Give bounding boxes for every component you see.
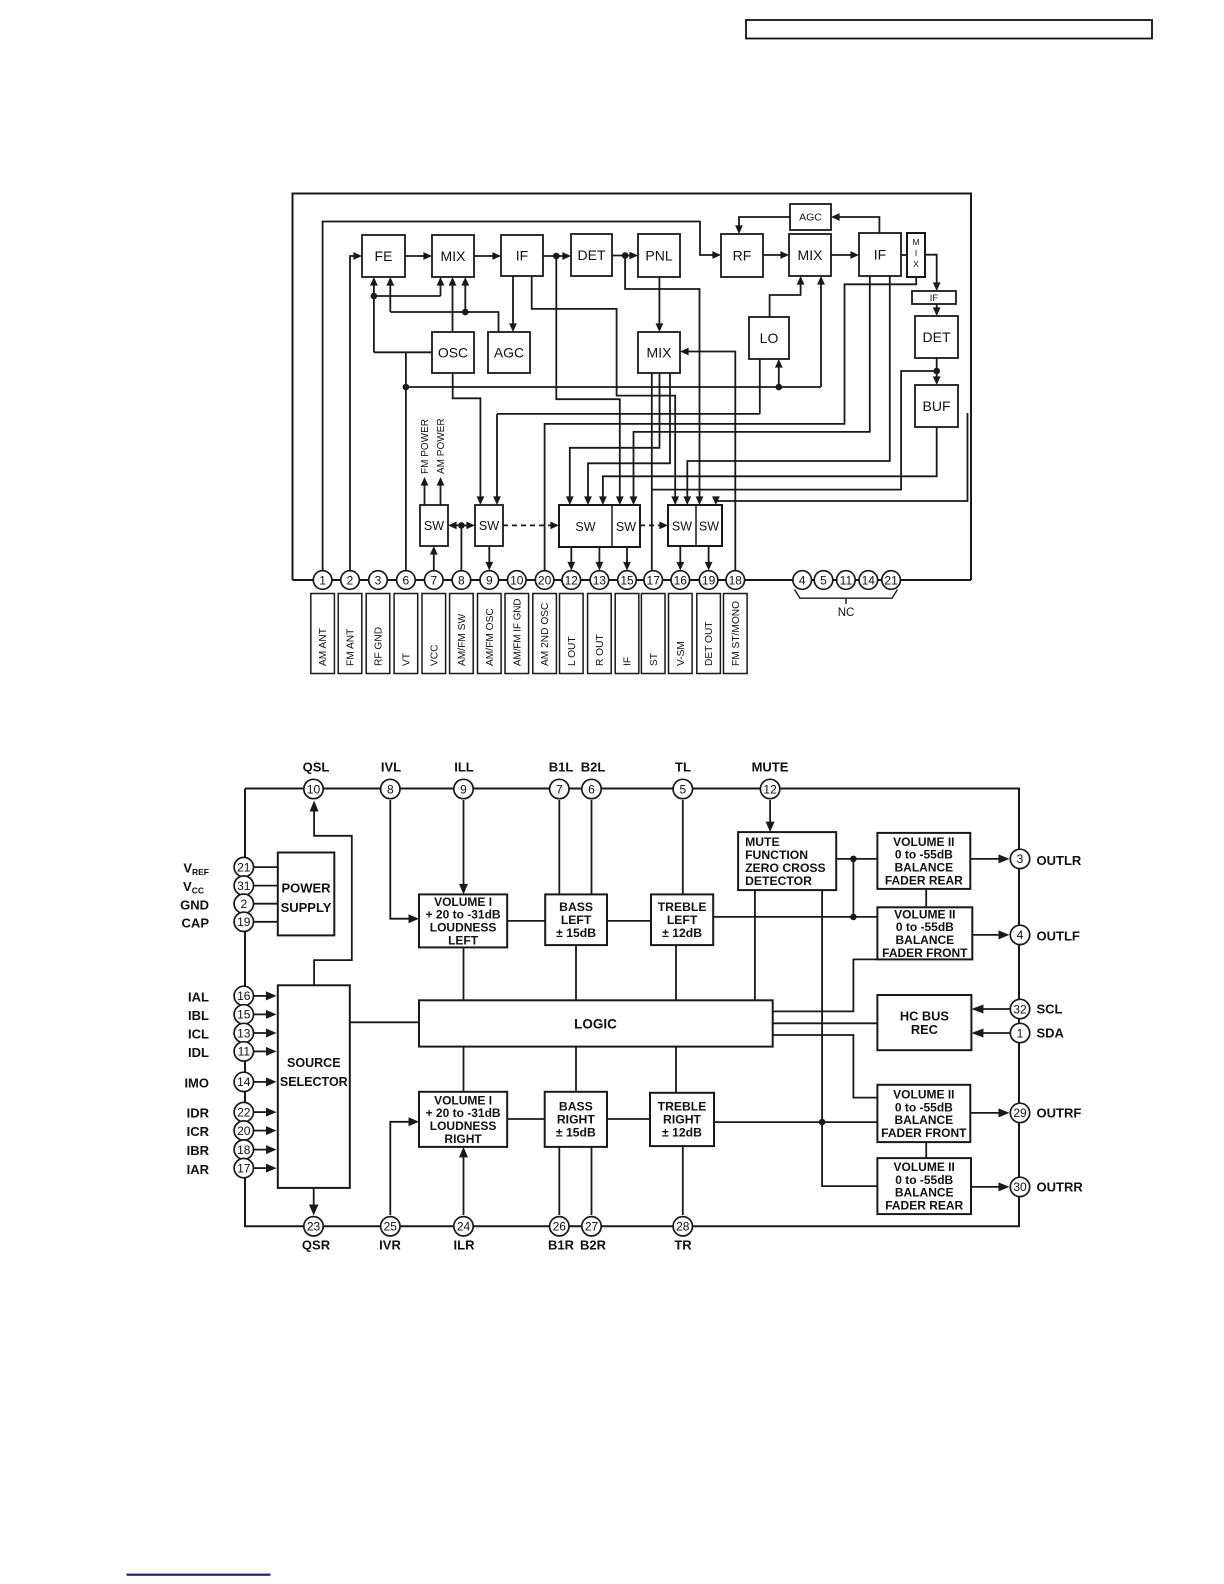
- pin name box DET OUT: [697, 594, 721, 674]
- wire IAR input arrow to SOURCE SELECTOR: [253, 1164, 277, 1173]
- wire pin24 ILR to VOLUME I RIGHT bottom: [459, 1147, 468, 1215]
- wire TREBLE RIGHT to VOLUME II FRONT (R) with junction: [714, 1121, 877, 1123]
- IC1 pin 18: [726, 571, 745, 590]
- svg-text:AM/FM IF GND: AM/FM IF GND: [512, 599, 523, 666]
- wire pin6 B2L to BASS LEFT: [591, 800, 593, 894]
- wire SOURCE SELECTOR to pin10 QSL: [310, 801, 352, 986]
- wire DET (AM) junction tap to pin17 net: [652, 371, 937, 490]
- block HC BUS REC: [877, 995, 971, 1050]
- pin name box L OUT: [560, 594, 584, 674]
- svg-text:M: M: [912, 237, 919, 247]
- svg-text:BUF: BUF: [923, 398, 951, 414]
- block AGC (AM, top): [790, 204, 831, 230]
- IC2 pin 31: [234, 876, 253, 895]
- svg-text:1: 1: [319, 573, 326, 587]
- svg-text:15: 15: [620, 573, 634, 587]
- wire BASS LEFT to LOGIC: [575, 945, 577, 1000]
- svg-text:LO: LO: [760, 330, 779, 346]
- svg-text:VREF: VREF: [183, 861, 209, 878]
- svg-text:DET: DET: [923, 329, 951, 345]
- pin name box AM 2ND OSC: [533, 594, 557, 674]
- wire pin12 MUTE to MUTE FUNCTION box: [766, 800, 775, 832]
- svg-text:IDR: IDR: [187, 1106, 210, 1121]
- block MIX (narrow, AM 2nd): [907, 233, 925, 277]
- IC2 pin 25: [381, 1217, 400, 1236]
- svg-text:7: 7: [556, 782, 563, 796]
- svg-text:25: 25: [384, 1220, 398, 1234]
- wire small IF to DET (AM): [933, 304, 941, 316]
- block SW1: [420, 505, 448, 546]
- IC1 pin 7: [425, 571, 444, 590]
- svg-text:BASS: BASS: [559, 1100, 593, 1114]
- svg-text:SOURCE: SOURCE: [287, 1056, 340, 1070]
- wire SW2 to pin9: [485, 546, 493, 571]
- pin name box AM/FM OSC: [478, 594, 502, 674]
- wire ICR input arrow to SOURCE SELECTOR: [253, 1126, 277, 1135]
- svg-text:OUTLF: OUTLF: [1037, 928, 1080, 943]
- svg-text:GND: GND: [180, 898, 209, 913]
- svg-text:REC: REC: [911, 1022, 938, 1037]
- svg-text:LOGIC: LOGIC: [574, 1017, 617, 1032]
- svg-text:± 12dB: ± 12dB: [662, 1126, 702, 1140]
- svg-text:IVL: IVL: [381, 760, 401, 775]
- block AGC (FM): [488, 332, 530, 373]
- block RF (AM): [721, 234, 763, 277]
- IC2 pin 24: [454, 1217, 473, 1236]
- wire pin28 TR to TREBLE RIGHT: [682, 1146, 684, 1215]
- wire SW3 to pin13: [596, 547, 604, 571]
- wire SW1 FM POWER output: [421, 477, 429, 505]
- svg-text:FM POWER: FM POWER: [420, 419, 431, 474]
- block VOLUME II BALANCE FADER REAR (L): [877, 833, 970, 889]
- IC2 pin 12: [760, 779, 779, 798]
- wire VOLUME II REAR (L) to VOLUME II FRONT (L): [925, 889, 927, 907]
- svg-text:ZERO CROSS: ZERO CROSS: [745, 861, 826, 875]
- IC2 pin 11: [234, 1042, 253, 1061]
- svg-text:FADER REAR: FADER REAR: [885, 873, 963, 887]
- block POWER SUPPLY: [278, 853, 335, 936]
- svg-text:6: 6: [403, 573, 410, 587]
- block VOLUME I RIGHT: [419, 1092, 507, 1147]
- svg-text:3: 3: [1017, 852, 1024, 866]
- svg-text:SW: SW: [699, 520, 719, 534]
- IC2 pin 30: [1010, 1177, 1029, 1196]
- wire AGC (top) to RF: [735, 217, 790, 234]
- svg-text:± 15dB: ± 15dB: [556, 926, 596, 940]
- svg-text:IBL: IBL: [188, 1008, 209, 1023]
- wire SOURCE SELECTOR to pin23 QSR: [309, 1188, 319, 1216]
- NC brace: [795, 590, 898, 605]
- svg-text:30: 30: [1013, 1180, 1027, 1194]
- wire pin2 FM ANT to FE: [350, 252, 362, 571]
- svg-text:12: 12: [565, 573, 579, 587]
- svg-text:OUTRR: OUTRR: [1037, 1180, 1084, 1195]
- svg-text:CAP: CAP: [182, 916, 210, 931]
- block FE: [362, 235, 405, 277]
- wire VOLUME I LEFT to BASS LEFT: [507, 920, 545, 922]
- IC2 pin 14: [234, 1072, 253, 1091]
- wire VT long horizontal to LO and MIX (AM): [406, 276, 825, 390]
- svg-text:2: 2: [347, 573, 354, 587]
- svg-text:8: 8: [387, 782, 394, 796]
- IC2 pin 17: [234, 1158, 253, 1177]
- IC1 package outline: [293, 194, 972, 581]
- svg-text:FADER FRONT: FADER FRONT: [882, 946, 968, 960]
- IC1 pin 19: [699, 571, 718, 590]
- svg-text:IF: IF: [516, 247, 528, 263]
- svg-text:VCC: VCC: [429, 644, 440, 666]
- wire BASS RIGHT to TREBLE RIGHT: [607, 1118, 650, 1120]
- wire VOLUME I RIGHT to BASS RIGHT: [507, 1118, 545, 1120]
- block VOLUME II BALANCE FADER REAR (R): [877, 1158, 971, 1214]
- svg-text:IF: IF: [874, 246, 886, 262]
- svg-text:AM ANT: AM ANT: [318, 628, 329, 666]
- IC1 pin 13: [590, 571, 609, 590]
- pin name box FM ANT: [338, 594, 362, 674]
- wire SOURCE SELECTOR to LOGIC: [350, 1021, 419, 1023]
- svg-text:SCL: SCL: [1037, 1002, 1063, 1017]
- wire MUTE box to LOGIC: [754, 890, 756, 1000]
- wire IF (AM) right output to SW5 input b: [683, 276, 889, 505]
- pin name box RF GND: [366, 594, 390, 674]
- IC2 pin 18: [234, 1140, 253, 1159]
- wire pin1 AM ANT to RF: [323, 222, 721, 571]
- IC2 pin 22: [234, 1102, 253, 1121]
- svg-text:RIGHT: RIGHT: [663, 1113, 701, 1127]
- wire RF to MIX (AM): [763, 251, 789, 259]
- wire TREBLE LEFT to VOLUME II FRONT (L) with junction: [713, 914, 877, 921]
- wire pin27 B2R to BASS RIGHT: [591, 1147, 593, 1215]
- wire MUTE box to VOLUME II REAR (L) with junction: [836, 856, 877, 917]
- wire MIX (AM 2nd conv) to pin17 ST: [651, 373, 653, 571]
- block LOGIC: [419, 1000, 773, 1046]
- IC2 pin 23: [304, 1217, 323, 1236]
- wire MIX to IF: [474, 252, 501, 260]
- IC2 pin 10: [304, 779, 323, 798]
- svg-text:SW: SW: [479, 519, 499, 533]
- svg-text:OUTLR: OUTLR: [1037, 853, 1082, 868]
- wire VOLUME II REAR (L) to pin3 OUTLR: [970, 854, 1009, 863]
- wire IMO input arrow to SOURCE SELECTOR: [253, 1077, 277, 1086]
- svg-text:15: 15: [237, 1008, 251, 1022]
- svg-text:17: 17: [647, 573, 661, 587]
- IC2 pin 20: [234, 1121, 253, 1140]
- IC1 pin 12: [562, 571, 581, 590]
- svg-text:DET: DET: [578, 247, 606, 263]
- svg-text:27: 27: [585, 1220, 599, 1234]
- wire OSC to MIX (FM 1st): [449, 277, 457, 332]
- wire VOLUME I LEFT to LOGIC: [463, 947, 465, 1000]
- wire pin8 IVL to VOLUME I LEFT: [390, 800, 419, 923]
- svg-text:24: 24: [457, 1220, 471, 1234]
- wire IAL input arrow to SOURCE SELECTOR: [253, 991, 277, 1000]
- wire pin20 AM 2ND OSC to narrow MIX: [545, 277, 917, 571]
- svg-text:NC: NC: [838, 607, 855, 619]
- svg-text:SUPPLY: SUPPLY: [281, 900, 332, 915]
- svg-text:OSC: OSC: [438, 344, 468, 360]
- svg-text:31: 31: [237, 879, 251, 893]
- svg-text:3: 3: [375, 573, 382, 587]
- svg-text:5: 5: [820, 573, 827, 587]
- svg-text:ICR: ICR: [187, 1124, 210, 1139]
- wire VOLUME II FRONT (R) to VOLUME II REAR (R): [925, 1142, 927, 1158]
- svg-text:SDA: SDA: [1037, 1026, 1065, 1041]
- block MIX (AM 2nd conv): [638, 332, 680, 373]
- svg-text:ILL: ILL: [454, 760, 474, 775]
- svg-text:26: 26: [553, 1220, 567, 1234]
- svg-text:16: 16: [237, 989, 251, 1003]
- IC1 pin 16: [671, 571, 690, 590]
- svg-text:QSR: QSR: [302, 1238, 331, 1253]
- svg-text:DETECTOR: DETECTOR: [745, 874, 812, 888]
- block SW2: [475, 505, 503, 546]
- IC2 pin 32: [1010, 999, 1029, 1018]
- wire SW3 to pin12: [567, 547, 575, 571]
- svg-text:22: 22: [237, 1105, 251, 1119]
- IC1 pin 8: [452, 571, 471, 590]
- svg-text:SW: SW: [575, 520, 595, 534]
- svg-text:FM ANT: FM ANT: [346, 629, 357, 666]
- block DET (AM): [915, 316, 958, 358]
- block IF (AM): [859, 233, 901, 276]
- pin name box VT: [394, 594, 418, 674]
- wire LOGIC to TREBLE RIGHT: [675, 1047, 677, 1093]
- svg-text:RF: RF: [733, 247, 752, 263]
- svg-text:MIX: MIX: [441, 248, 467, 264]
- footer blue rule: [127, 1574, 271, 1576]
- wire IF (AM) to SW4 input b: [630, 276, 870, 505]
- svg-text:21: 21: [884, 573, 898, 587]
- svg-text:14: 14: [237, 1075, 251, 1089]
- IC1 pin 3: [369, 571, 388, 590]
- svg-text:MIX: MIX: [798, 247, 824, 263]
- svg-text:13: 13: [593, 573, 607, 587]
- IC2 pin 29: [1010, 1103, 1029, 1122]
- wire DET (FM) junction to SW4: [556, 256, 623, 505]
- IC2 pin 3: [1010, 849, 1029, 868]
- block VOLUME II BALANCE FADER FRONT (L): [877, 907, 972, 959]
- svg-text:SW: SW: [424, 519, 444, 533]
- svg-text:9: 9: [486, 573, 493, 587]
- svg-text:BASS: BASS: [559, 900, 593, 914]
- wire IDR input arrow to SOURCE SELECTOR: [253, 1108, 277, 1117]
- wire BASS LEFT to TREBLE LEFT: [607, 920, 651, 922]
- block IF (small, AM 2nd): [912, 291, 956, 304]
- wire ICL input arrow to SOURCE SELECTOR: [253, 1029, 277, 1038]
- wire MIX (AM) to IF (AM): [831, 251, 859, 259]
- block LO: [749, 317, 789, 359]
- IC1 pin 11: [837, 571, 856, 590]
- IC1 pin 21: [882, 571, 901, 590]
- svg-text:RF GND: RF GND: [374, 627, 385, 666]
- block VOLUME II BALANCE FADER FRONT (R): [877, 1085, 970, 1142]
- IC1 pin 1: [313, 571, 332, 590]
- svg-text:TL: TL: [675, 760, 691, 775]
- svg-text:LEFT: LEFT: [561, 913, 592, 927]
- svg-text:B1R: B1R: [548, 1238, 575, 1253]
- svg-text:POWER: POWER: [281, 880, 331, 895]
- wire pin18 FM ST/MONO to MIX (AM 2nd conv): [680, 348, 735, 571]
- pin name box AM/FM SW: [450, 594, 474, 674]
- IC2 pin 21: [234, 857, 253, 876]
- wire VOLUME II FRONT (L) to pin4 OUTLF: [972, 930, 1009, 939]
- IC2 pin 2: [234, 894, 253, 913]
- svg-text:X: X: [913, 259, 919, 269]
- svg-text:10: 10: [307, 782, 321, 796]
- svg-text:IF: IF: [930, 293, 939, 304]
- svg-text:TREBLE: TREBLE: [658, 1100, 707, 1114]
- svg-text:SELECTOR: SELECTOR: [280, 1075, 348, 1089]
- wire pin25 IVR to VOLUME I RIGHT: [390, 1117, 419, 1215]
- wire OSC to SW2 input a: [453, 373, 485, 505]
- IC2 pin 5: [673, 779, 692, 798]
- wire pin7 B1L to BASS LEFT: [558, 800, 560, 894]
- svg-text:ST: ST: [649, 653, 660, 666]
- svg-text:23: 23: [307, 1220, 321, 1234]
- svg-text:SW: SW: [672, 520, 692, 534]
- wire IBR input arrow to SOURCE SELECTOR: [253, 1145, 277, 1154]
- IC1 bottom edge / pin line: [293, 579, 972, 581]
- wire IF (FM) to AGC (FM): [509, 276, 517, 332]
- pin name box AM ANT: [311, 594, 335, 674]
- svg-text:IBR: IBR: [187, 1143, 210, 1158]
- wire LO to MIX (AM): [770, 276, 805, 317]
- svg-text:20: 20: [538, 573, 552, 587]
- wire IF (AM) to AGC (top): [831, 213, 879, 233]
- svg-text:7: 7: [430, 573, 437, 587]
- wire SW6 input b feed along right border: [712, 413, 968, 505]
- wire pin8 AM/FM SW to SW1 and SW2: [448, 522, 475, 571]
- block SW5/SW6 bank: [668, 505, 722, 546]
- wire pin9 ILL to VOLUME I LEFT top: [459, 800, 468, 894]
- svg-text:QSL: QSL: [303, 760, 330, 775]
- svg-text:IAL: IAL: [188, 990, 209, 1005]
- block PNL: [638, 234, 680, 277]
- IC2 pin 7: [550, 779, 569, 798]
- svg-text:AM/FM SW: AM/FM SW: [457, 614, 468, 666]
- wire pin5 TL to TREBLE LEFT: [682, 800, 684, 894]
- svg-text:IVR: IVR: [379, 1238, 401, 1253]
- wire IF to DET with junction: [543, 252, 571, 260]
- svg-text:± 15dB: ± 15dB: [556, 1126, 596, 1140]
- pin name box FM ST/MONO: [724, 594, 748, 674]
- svg-text:B2L: B2L: [581, 760, 606, 775]
- block MIX (FM 1st): [432, 235, 474, 277]
- svg-text:32: 32: [1013, 1002, 1027, 1016]
- block TREBLE RIGHT: [650, 1093, 714, 1146]
- IC2 pin 9: [454, 779, 473, 798]
- IC1 pin 20: [535, 571, 554, 590]
- IC1 pin 6: [397, 571, 416, 590]
- IC2 pin 15: [234, 1005, 253, 1024]
- IC2 pin 8: [381, 779, 400, 798]
- block SW3/SW4 bank: [559, 505, 640, 547]
- svg-text:FADER REAR: FADER REAR: [885, 1199, 963, 1213]
- wire AGC (FM) control to FE and MIX: [386, 277, 498, 332]
- svg-text:2: 2: [240, 897, 247, 911]
- svg-text:MIX: MIX: [647, 344, 673, 360]
- wire IBL input arrow to SOURCE SELECTOR: [253, 1010, 277, 1019]
- wire BUF to SW3 input c: [599, 427, 937, 505]
- svg-text:B1L: B1L: [549, 760, 574, 775]
- svg-text:IDL: IDL: [188, 1045, 209, 1060]
- svg-text:11: 11: [840, 573, 853, 587]
- svg-text:AM/FM OSC: AM/FM OSC: [485, 608, 496, 666]
- block BASS RIGHT: [545, 1092, 607, 1147]
- wire SW5 to pin16: [676, 546, 684, 571]
- block MUTE FUNCTION ZERO CROSS DETECTOR: [738, 832, 836, 890]
- svg-text:RIGHT: RIGHT: [444, 1132, 482, 1146]
- wire TREBLE LEFT to LOGIC: [675, 945, 677, 1000]
- wire SW4 to pin15: [623, 547, 631, 571]
- svg-text:18: 18: [729, 573, 743, 587]
- svg-text:AM POWER: AM POWER: [436, 418, 447, 474]
- svg-text:AGC: AGC: [799, 212, 822, 224]
- svg-text:ILR: ILR: [454, 1238, 476, 1253]
- svg-text:FE: FE: [375, 248, 393, 264]
- wire pin6 VT to OSC / FE / MIX (tuning net): [370, 277, 444, 571]
- IC1 pin 5: [814, 571, 833, 590]
- svg-text:ICL: ICL: [188, 1027, 209, 1042]
- svg-text:RIGHT: RIGHT: [557, 1113, 595, 1127]
- svg-text:17: 17: [237, 1161, 251, 1175]
- IC2 pin 16: [234, 986, 253, 1005]
- wire PNL junction to SW6: [625, 256, 703, 506]
- IC1 pin 10: [508, 571, 527, 590]
- svg-text:4: 4: [1017, 928, 1024, 942]
- IC1 pin 17: [644, 571, 663, 590]
- svg-text:VT: VT: [402, 653, 413, 666]
- wire IF (AM) to narrow MIX: [901, 254, 907, 256]
- svg-text:MUTE: MUTE: [752, 760, 789, 775]
- svg-text:B2R: B2R: [580, 1238, 607, 1253]
- svg-text:29: 29: [1013, 1106, 1027, 1120]
- wire dashed SW2 to SW3: [503, 522, 559, 530]
- wire SW1 AM POWER output: [437, 477, 445, 505]
- wire LOGIC to HC BUS: [773, 1022, 878, 1024]
- wire dashed SW4 to SW5: [640, 522, 668, 530]
- svg-text:20: 20: [237, 1124, 251, 1138]
- svg-text:11: 11: [238, 1045, 251, 1059]
- title box (empty): [746, 20, 1152, 39]
- svg-text:AGC: AGC: [494, 344, 524, 360]
- wire pin26 B1R to BASS RIGHT: [558, 1147, 560, 1215]
- block DET (FM): [571, 234, 612, 276]
- svg-text:IMO: IMO: [184, 1076, 209, 1091]
- IC2 pin 4: [1010, 925, 1029, 944]
- svg-text:DET OUT: DET OUT: [704, 621, 715, 666]
- IC1 pin 4: [793, 571, 812, 590]
- wire pin32 SCL to HC BUS: [971, 1005, 1009, 1014]
- wire LOGIC to VOLUME II FRONT (L) bottom: [773, 959, 878, 1011]
- IC2 pin 28: [673, 1217, 692, 1236]
- pin name box ST: [641, 594, 665, 674]
- svg-text:21: 21: [237, 860, 251, 874]
- block VOLUME I LEFT: [419, 894, 507, 947]
- IC1 pin 9: [480, 571, 499, 590]
- IC2 package outline: [245, 789, 1019, 1227]
- IC2 pin 1: [1010, 1023, 1029, 1042]
- IC2 pin 27: [582, 1217, 601, 1236]
- block BUF: [915, 385, 958, 427]
- svg-text:IAR: IAR: [187, 1162, 210, 1177]
- wire VOLUME II FRONT (R) to pin29 OUTRF: [970, 1108, 1009, 1117]
- wire IDL input arrow to SOURCE SELECTOR: [253, 1047, 277, 1056]
- svg-text:10: 10: [510, 573, 524, 587]
- block OSC: [432, 332, 474, 373]
- wire narrow MIX to small IF: [925, 255, 941, 291]
- pin name box V-SM: [669, 594, 693, 674]
